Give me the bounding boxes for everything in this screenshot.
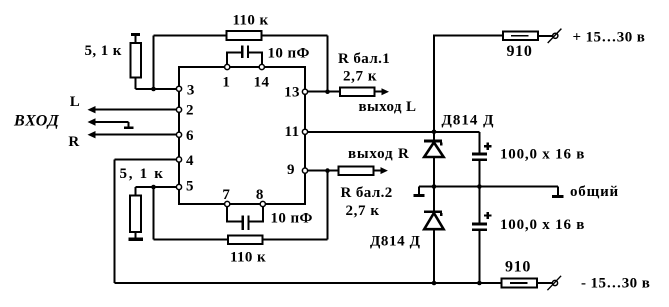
svg-text:11: 11 [285, 124, 300, 140]
svg-text:10 пФ: 10 пФ [271, 211, 313, 227]
svg-text:2,7 к: 2,7 к [346, 203, 380, 219]
pin 1 [225, 64, 230, 69]
resistor R бал.1 2,7k [340, 87, 375, 96]
arrow output L [382, 88, 390, 95]
capacitor C 10pF bottom [226, 204, 264, 222]
svg-text:5: 5 [186, 178, 194, 194]
capacitor C 10pF top [226, 52, 263, 67]
svg-text:ВХОД: ВХОД [13, 112, 60, 129]
wire pin 9 net [308, 170, 339, 172]
svg-text:5, 1 к: 5, 1 к [120, 166, 165, 182]
wire positive supply rail [433, 36, 553, 140]
junction common/zener [432, 184, 437, 189]
wire pin 4 to negative rail loop [115, 160, 180, 284]
capacitor 100,0x16в top [472, 153, 487, 156]
wire feedback L top (node pin3 to 110k) [154, 36, 328, 92]
pin 7 [225, 201, 230, 206]
wire output R [373, 170, 380, 172]
wire input L to pin 2 [95, 109, 179, 111]
svg-text:100,0 х 16 в: 100,0 х 16 в [500, 217, 585, 233]
pin 8 [260, 201, 265, 206]
op-amp IC U1 body [179, 67, 305, 204]
resistor 910 top [503, 31, 538, 40]
svg-text:1: 1 [222, 75, 230, 91]
svg-text:7: 7 [222, 187, 230, 203]
svg-text:общий: общий [570, 184, 619, 200]
svg-text:Д814 Д: Д814 Д [442, 112, 495, 128]
terminal - supply [552, 280, 557, 285]
wire input shield [95, 122, 129, 127]
junction node pin9/feedback [325, 168, 330, 173]
arrow output R [381, 167, 388, 174]
pin 5 [176, 184, 181, 189]
terminal + supply [553, 33, 558, 38]
svg-text:R: R [68, 134, 79, 150]
pin 6 [176, 132, 181, 137]
svg-text:R бал.1: R бал.1 [338, 51, 390, 67]
resistor 910 bottom [501, 278, 537, 287]
pin 4 [176, 157, 181, 162]
svg-text:L: L [70, 94, 80, 110]
pin 3 [176, 86, 181, 91]
svg-text:100,0 х 16 в: 100,0 х 16 в [500, 146, 585, 162]
wire input R to pin 6 [95, 134, 179, 136]
resistor 5,1k bottom [130, 196, 141, 233]
svg-text:R бал.2: R бал.2 [341, 185, 393, 201]
junction node pin3/5,1k/feedback [151, 87, 156, 92]
wire output L [375, 91, 382, 93]
resistor 5,1k top [130, 43, 141, 78]
svg-text:910: 910 [505, 258, 531, 275]
plus sign cap top [484, 143, 491, 150]
pin 2 [176, 107, 181, 112]
svg-text:9: 9 [287, 162, 295, 178]
svg-text:5, 1 к: 5, 1 к [85, 43, 122, 59]
pin 13 [302, 89, 307, 94]
junction node pin11/supply [432, 130, 437, 135]
svg-text:110 к: 110 к [232, 12, 268, 28]
pin 14 [259, 64, 264, 69]
arrow input R [88, 131, 96, 138]
zener diode Д814Д top [424, 140, 442, 143]
svg-text:- 15…30 в: - 15…30 в [581, 275, 650, 291]
svg-text:выход L: выход L [359, 99, 417, 115]
wire common node общий [419, 187, 558, 196]
svg-text:14: 14 [254, 75, 270, 91]
zener diode Д814Д bottom [433, 187, 435, 211]
svg-text:Д814 Д: Д814 Д [370, 234, 421, 250]
junction common/cap [477, 184, 482, 189]
svg-text:110 к: 110 к [230, 249, 266, 265]
arrow input shield [88, 118, 96, 125]
terminal bar of 5,1k top [131, 33, 140, 36]
wire pin 11 to supply node [308, 132, 480, 153]
junction rail/cap [477, 281, 482, 286]
svg-text:910: 910 [506, 43, 532, 60]
svg-text:3: 3 [187, 83, 195, 99]
ground bar right [552, 195, 564, 198]
svg-text:10 пФ: 10 пФ [268, 46, 310, 62]
svg-text:4: 4 [186, 153, 194, 169]
junction node pin13/feedback [325, 89, 330, 94]
pin 9 [302, 168, 307, 173]
ground bar input shield [124, 127, 134, 130]
wire pin 5 net [135, 187, 228, 240]
junction rail/zener [432, 281, 437, 286]
pin 11 [302, 129, 307, 134]
svg-text:+ 15…30 в: + 15…30 в [573, 29, 646, 45]
arrow input L [88, 106, 96, 113]
wire negative supply rail [115, 282, 553, 284]
svg-text:выход R: выход R [348, 146, 410, 162]
svg-text:13: 13 [284, 85, 300, 101]
wire pin 13 net [308, 91, 340, 93]
ground bar left [414, 194, 425, 197]
resistor R 110k bottom [228, 235, 262, 244]
wire feedback R bottom [262, 171, 327, 240]
plus sign cap bottom [484, 212, 491, 219]
junction node pin5/5,1k/feedback [151, 185, 156, 190]
wire 5,1k top leads [136, 36, 180, 89]
resistor R 110k top [227, 31, 262, 40]
resistor R бал.2 2,7k [339, 166, 374, 175]
svg-text:2,7 к: 2,7 к [343, 68, 377, 84]
svg-text:2: 2 [186, 103, 194, 119]
capacitor 100,0x16в bottom [478, 187, 480, 223]
svg-text:6: 6 [186, 128, 194, 144]
terminal bar of 5,1k bottom [129, 238, 143, 241]
svg-text:8: 8 [256, 187, 264, 203]
